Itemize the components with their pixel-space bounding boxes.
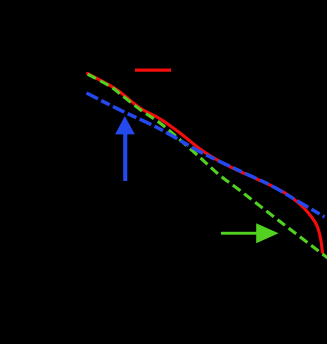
blue dashed asymptote line [87, 93, 325, 217]
green dashed asymptote line [88, 74, 327, 258]
red curve (solid) [88, 74, 323, 253]
green arrow (horizontal, pointing right) [221, 223, 279, 243]
red legend sample line [135, 68, 171, 71]
blue arrow (vertical, pointing up) [115, 116, 135, 181]
